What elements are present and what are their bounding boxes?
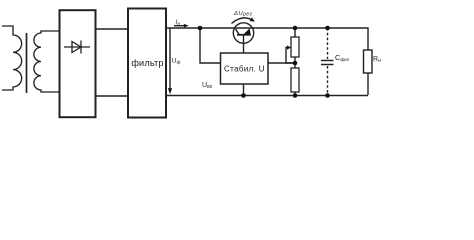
wire node tap to stabilizer input: [200, 28, 221, 63]
svg-text:ΔUрег: ΔUрег: [233, 11, 252, 18]
svg-text:Iн: Iн: [176, 19, 181, 27]
capacitor Cfil lower dashed lead: [327, 66, 329, 96]
labels: [131, 11, 381, 90]
arrowhead In: [184, 24, 189, 28]
transistor Q1 base lead down: [243, 35, 245, 53]
arrowhead curved arrow: [250, 17, 255, 21]
svg-text:фильтр: фильтр: [131, 58, 163, 68]
svg-text:Uф: Uф: [172, 58, 181, 66]
arrowhead potentiometer wiper: [287, 45, 291, 49]
wire bottom output rail: [166, 95, 368, 97]
transformer T1 core: [26, 33, 28, 93]
junction dot node bottom-3: [325, 93, 330, 98]
curved arrow over transistor: [232, 18, 253, 24]
svg-text:Cфил: Cфил: [335, 53, 350, 62]
potentiometer R1 wiper wire: [286, 48, 295, 64]
wire stabilizer bottom lead: [243, 84, 245, 96]
junction dot node top-3: [325, 26, 330, 31]
transistor Q1 base bar: [237, 34, 251, 36]
capacitor Cfil plates: [321, 61, 334, 65]
transistor emitter filled triangle: [244, 28, 251, 34]
transformer T1 secondary winding: [34, 31, 60, 92]
wire bridge to filter (top): [96, 28, 129, 30]
wire top output rail: [166, 28, 368, 50]
wire bridge to filter (bottom): [96, 95, 129, 97]
svg-text:Uвх: Uвх: [202, 82, 213, 90]
filter block: [128, 9, 166, 118]
transistor Q1 circle: [233, 23, 253, 43]
wire between divider resistors: [294, 57, 296, 68]
arrow Uf (voltage arrow down): [169, 28, 171, 90]
wire Rn lower lead: [367, 73, 369, 95]
junction dot node bottom-2: [293, 93, 298, 98]
wire stabilizer output to divider: [268, 62, 295, 64]
arrow In on top rail: [174, 25, 184, 27]
svg-text:Rн: Rн: [373, 56, 381, 64]
capacitor Cfil upper dashed lead: [327, 28, 329, 59]
load resistor Rn body: [364, 50, 373, 73]
junction dot node top-1: [198, 26, 203, 31]
diode symbol inside bridge: [64, 41, 90, 54]
svg-text:Стабил. U: Стабил. U: [224, 64, 265, 73]
arrowhead Uf down: [168, 88, 172, 94]
wire divider upper lead: [294, 28, 296, 37]
bridge rectifier VD block: [60, 10, 96, 117]
wire divider lower lead: [294, 92, 296, 96]
junction dot node bottom-1: [241, 93, 246, 98]
transformer T1 primary winding: [2, 26, 22, 90]
junction dot divider tap: [293, 61, 298, 66]
filled parts: [168, 17, 330, 97]
junction dot node top-2: [293, 26, 298, 31]
transistor Q1 collector diagonal: [236, 29, 240, 35]
stabilizer block U1: [221, 53, 269, 84]
potentiometer R1 body: [291, 37, 299, 57]
resistor R2 body: [291, 68, 299, 92]
